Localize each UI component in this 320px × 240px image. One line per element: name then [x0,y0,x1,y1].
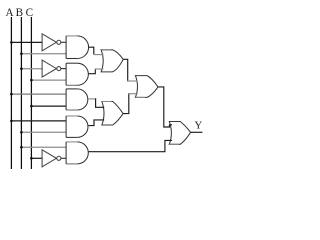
svg-text:A: A [6,7,14,19]
svg-text:Y: Y [194,120,202,132]
